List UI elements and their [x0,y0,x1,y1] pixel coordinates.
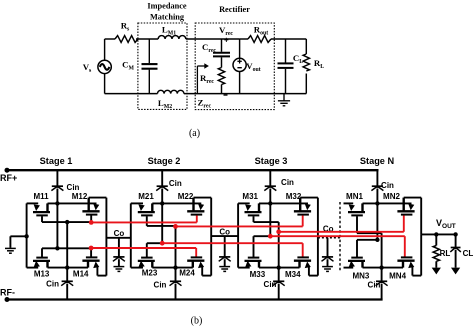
svg-text:M33: M33 [250,270,266,279]
capacitor Cin (stage 1 top) [51,170,63,248]
red bias wire: stage2 nodeA to M34 gate [160,241,303,246]
svg-text:Stage N: Stage N [360,156,395,166]
label R_rec [200,73,214,85]
label R_L [314,58,324,70]
wire: LM1 to rectifier input [186,38,222,40]
stage 2 node B wire [147,225,176,227]
wire: Rout to load [271,38,306,40]
svg-text:+: + [224,36,229,45]
svg-text:Stage 1: Stage 1 [40,156,73,166]
transistor M13 [33,248,50,267]
transistor M33 [245,236,262,267]
label L_M1 [162,25,176,37]
transistor M11 [33,203,50,222]
svg-text:M14: M14 [73,269,89,278]
svg-text:M12: M12 [72,192,88,201]
svg-text:RF-: RF- [0,288,15,298]
stage 1 lower-right wire [97,275,106,277]
stage 2 upper-right wire and right vertical [194,198,212,276]
label Cin (stage 2 top) [169,179,182,188]
svg-text:Cin: Cin [46,280,59,289]
label Cin (stage 3 top) [281,178,294,187]
red bias wire: stage3 nodeA to MN4 gate [268,234,405,239]
svg-text:M24: M24 [179,269,195,278]
label M23 [142,269,158,278]
stage 2 top wire [131,201,202,205]
svg-text:MN2: MN2 [383,192,400,201]
source V_out circle [233,39,246,94]
red bias wire: stage1 nodeA to M24 gate [89,246,197,251]
capacitor Co (2-3) [219,236,231,271]
label RF+ [0,173,17,183]
stage N node B wire [357,232,382,234]
wire: Rs to LM1 [136,38,158,40]
label C_rec [202,42,216,54]
stage 1 upper-right wire and right vertical [89,198,107,276]
label M11 [33,192,49,201]
capacitor C_L branch [278,39,294,94]
transistor MN4 (red-biased gate) [397,236,414,275]
label Cin (stage 3 bottom) [264,280,277,289]
label M24 [179,269,195,278]
svg-text:M11: M11 [33,192,49,201]
capacitor Cin (stage 3 bottom) [273,268,285,300]
caption (a) [189,128,200,139]
transistor M22 (red-biased gate) [187,198,204,223]
svg-text:MN1: MN1 [346,192,363,201]
label V_rec and plus [219,25,233,45]
resistor R_rec [218,68,224,85]
stage 1 top wire [27,201,97,205]
red bias wire: stage1 nodeB to M22 gate [89,220,197,225]
capacitor C_rec branch [213,39,230,68]
wire: source to top rail [105,39,115,60]
transistor M34 (red-biased gate) [294,243,311,275]
svg-text:Co: Co [114,229,125,238]
stage 2 node B vertical [173,226,177,269]
svg-text:Cin: Cin [368,281,381,290]
impedance arrow Z_rec [197,63,209,93]
label M31 [242,192,258,201]
wire: LM2 to right bottom [184,93,306,95]
resistor R_out [248,36,271,43]
label Cin (stage 2 bottom) [154,281,167,290]
load capacitor CL [450,234,461,274]
stage 2 node A wire [147,242,162,244]
label M22 [178,192,194,201]
svg-text:M34: M34 [285,270,301,279]
label Cin (stage N top) [381,181,394,190]
capacitor Cin (stage 2 bottom) [170,268,182,300]
label MN1 [346,192,363,201]
svg-text:Impedance: Impedance [147,2,186,11]
label V_OUT [436,218,456,230]
label M21 [138,192,154,201]
wire stage2 to stage3 (DC node) [211,235,238,237]
dotted wire stage3 to stageN (DC node) [318,237,340,239]
label L_M2 [158,98,172,110]
stage 1 node A wire [42,246,91,250]
caption (b) [191,316,203,327]
label M33 [250,270,266,279]
ground of circuit a [278,94,290,106]
label M32 [286,192,302,201]
svg-text:M21: M21 [138,192,154,201]
svg-text:M31: M31 [242,192,258,201]
capacitor Cin (stage 2 top) [156,170,168,243]
capacitor Cin (stage N top) [371,170,383,240]
svg-text:M22: M22 [178,192,194,201]
label M13 [34,269,50,278]
label Z_rec [198,98,212,110]
svg-text:MN4: MN4 [389,271,406,280]
label MN2 [383,192,400,201]
stage 2 lower-right wire [202,275,211,277]
stage 2 left vertical wire [130,203,132,267]
svg-text:MN3: MN3 [352,271,369,280]
svg-text:Stage 3: Stage 3 [255,156,288,166]
label minus under Crec branch [224,94,228,96]
stage 3 left vertical wire [237,203,239,267]
capacitor Cin (stage 1 bottom) [61,268,73,300]
transistor M24 (red-biased gate) [187,248,204,276]
capacitor Co (3-N) [322,238,334,272]
resistor R_L [303,39,309,94]
label Stage 1 [40,156,73,166]
label Stage 2 [148,156,181,166]
wire stage1 to stage2 (DC node) [106,237,130,239]
wire: top rail Crec to Vout source [222,38,240,40]
transistor M31 [245,203,262,222]
red bias wire: stage2 nodeB to M32 gate [173,224,303,229]
svg-text:(b): (b) [191,316,203,327]
dashed box: rectifier [195,23,274,110]
svg-text:Cin: Cin [154,281,167,290]
label M12 [72,192,88,201]
RF- input rail [5,297,383,302]
transistor M23 [138,243,155,267]
label M14 [73,269,89,278]
svg-text:M32: M32 [286,192,302,201]
label Cin (stage 1 bottom) [46,280,59,289]
label Cin (stage 1 top) [67,183,80,192]
transistor MN1 [348,203,365,233]
label MN3 [352,271,369,280]
capacitor Co (1-2) [113,238,125,272]
dashed box: impedance matching network [138,23,187,109]
ground (stage 1 reference) [5,234,29,253]
label MN4 [389,271,406,280]
label Stage 3 [255,156,288,166]
transistor MN3 [348,240,365,268]
inductor L_M2 [158,90,184,93]
label V_out [246,61,260,73]
svg-text:RL: RL [440,249,451,258]
stage 1 node B wire [42,220,91,224]
label Co (1-2) [114,229,125,238]
svg-text:M13: M13 [34,269,50,278]
transistor MN2 (red-biased gate) [397,198,414,232]
output wire to Vout node [421,232,458,236]
label R_out [254,25,268,37]
label Co (2-3) [219,227,230,236]
svg-text:Cin: Cin [67,183,80,192]
stage N node A wire [357,238,380,242]
capacitor C_M branch [142,39,158,94]
svg-text:Rectifier: Rectifier [219,5,250,14]
label RF- [0,288,15,298]
svg-text:M23: M23 [142,269,158,278]
resistor R_s [115,36,138,43]
stage N bottom wire [344,267,404,269]
svg-text:Cin: Cin [169,179,182,188]
wire: Vout to Rout [240,38,248,40]
stage 3 upper-right wire and right vertical [300,198,318,276]
stage 1 node B vertical [65,222,69,270]
label Cin (stage N bottom) [368,281,381,290]
red bias wire: stage3 nodeB to MN2 gate [276,229,403,234]
stage 2 bottom wire [131,267,193,269]
stage 3 node A wire [254,235,271,237]
bottom rail of circuit a [105,73,158,93]
stage 3 top wire [238,201,308,205]
stage 1 left vertical wire [26,203,28,267]
stage N upper-right wire and right vertical [404,198,422,235]
svg-text:Stage 2: Stage 2 [148,156,181,166]
label Co (3-N) [323,225,334,234]
transistor M32 (red-biased gate) [294,198,311,227]
stage 3 bottom wire [238,267,299,269]
transistor M12 [82,198,99,222]
label R_s [121,21,130,33]
stage N lower-right wire [412,234,421,275]
svg-text:(a): (a) [189,128,200,139]
label M34 [285,270,301,279]
label C_L [293,53,303,65]
svg-text:Co: Co [219,227,230,236]
wire: Rrec to bottom rail [221,85,223,94]
source V_s (sine) [98,60,111,73]
capacitor Cin (stage 3 top) [264,170,276,236]
inductor L_M1 [158,36,186,39]
load resistor RL [432,234,441,274]
stage 3 node B wire [254,221,279,223]
svg-text:Cin: Cin [281,178,294,187]
transistor M14 [82,249,99,276]
label Stage N [360,156,395,166]
svg-text:Cin: Cin [264,280,277,289]
label V_s [83,62,92,74]
label: Rectifier [219,5,250,14]
transistor M21 [138,203,155,226]
RF+ input rail [5,168,379,173]
svg-text:Matching: Matching [150,12,185,21]
capacitor Cin (stage N bottom) [376,268,388,300]
svg-text:RF+: RF+ [0,173,17,183]
svg-text:CL: CL [463,249,474,258]
dashed separator before stage N [339,202,341,271]
label RL [440,249,451,258]
stage N node B vertical [379,233,383,270]
stage N top wire [344,201,412,205]
label CL [463,249,474,258]
label C_M [122,60,134,72]
stage 3 lower-right wire [309,275,318,277]
svg-text:Cin: Cin [381,181,394,190]
stage 3 node B vertical [277,222,281,270]
label: Impedance Matching [147,2,186,22]
stage 1 bottom wire [27,267,88,269]
